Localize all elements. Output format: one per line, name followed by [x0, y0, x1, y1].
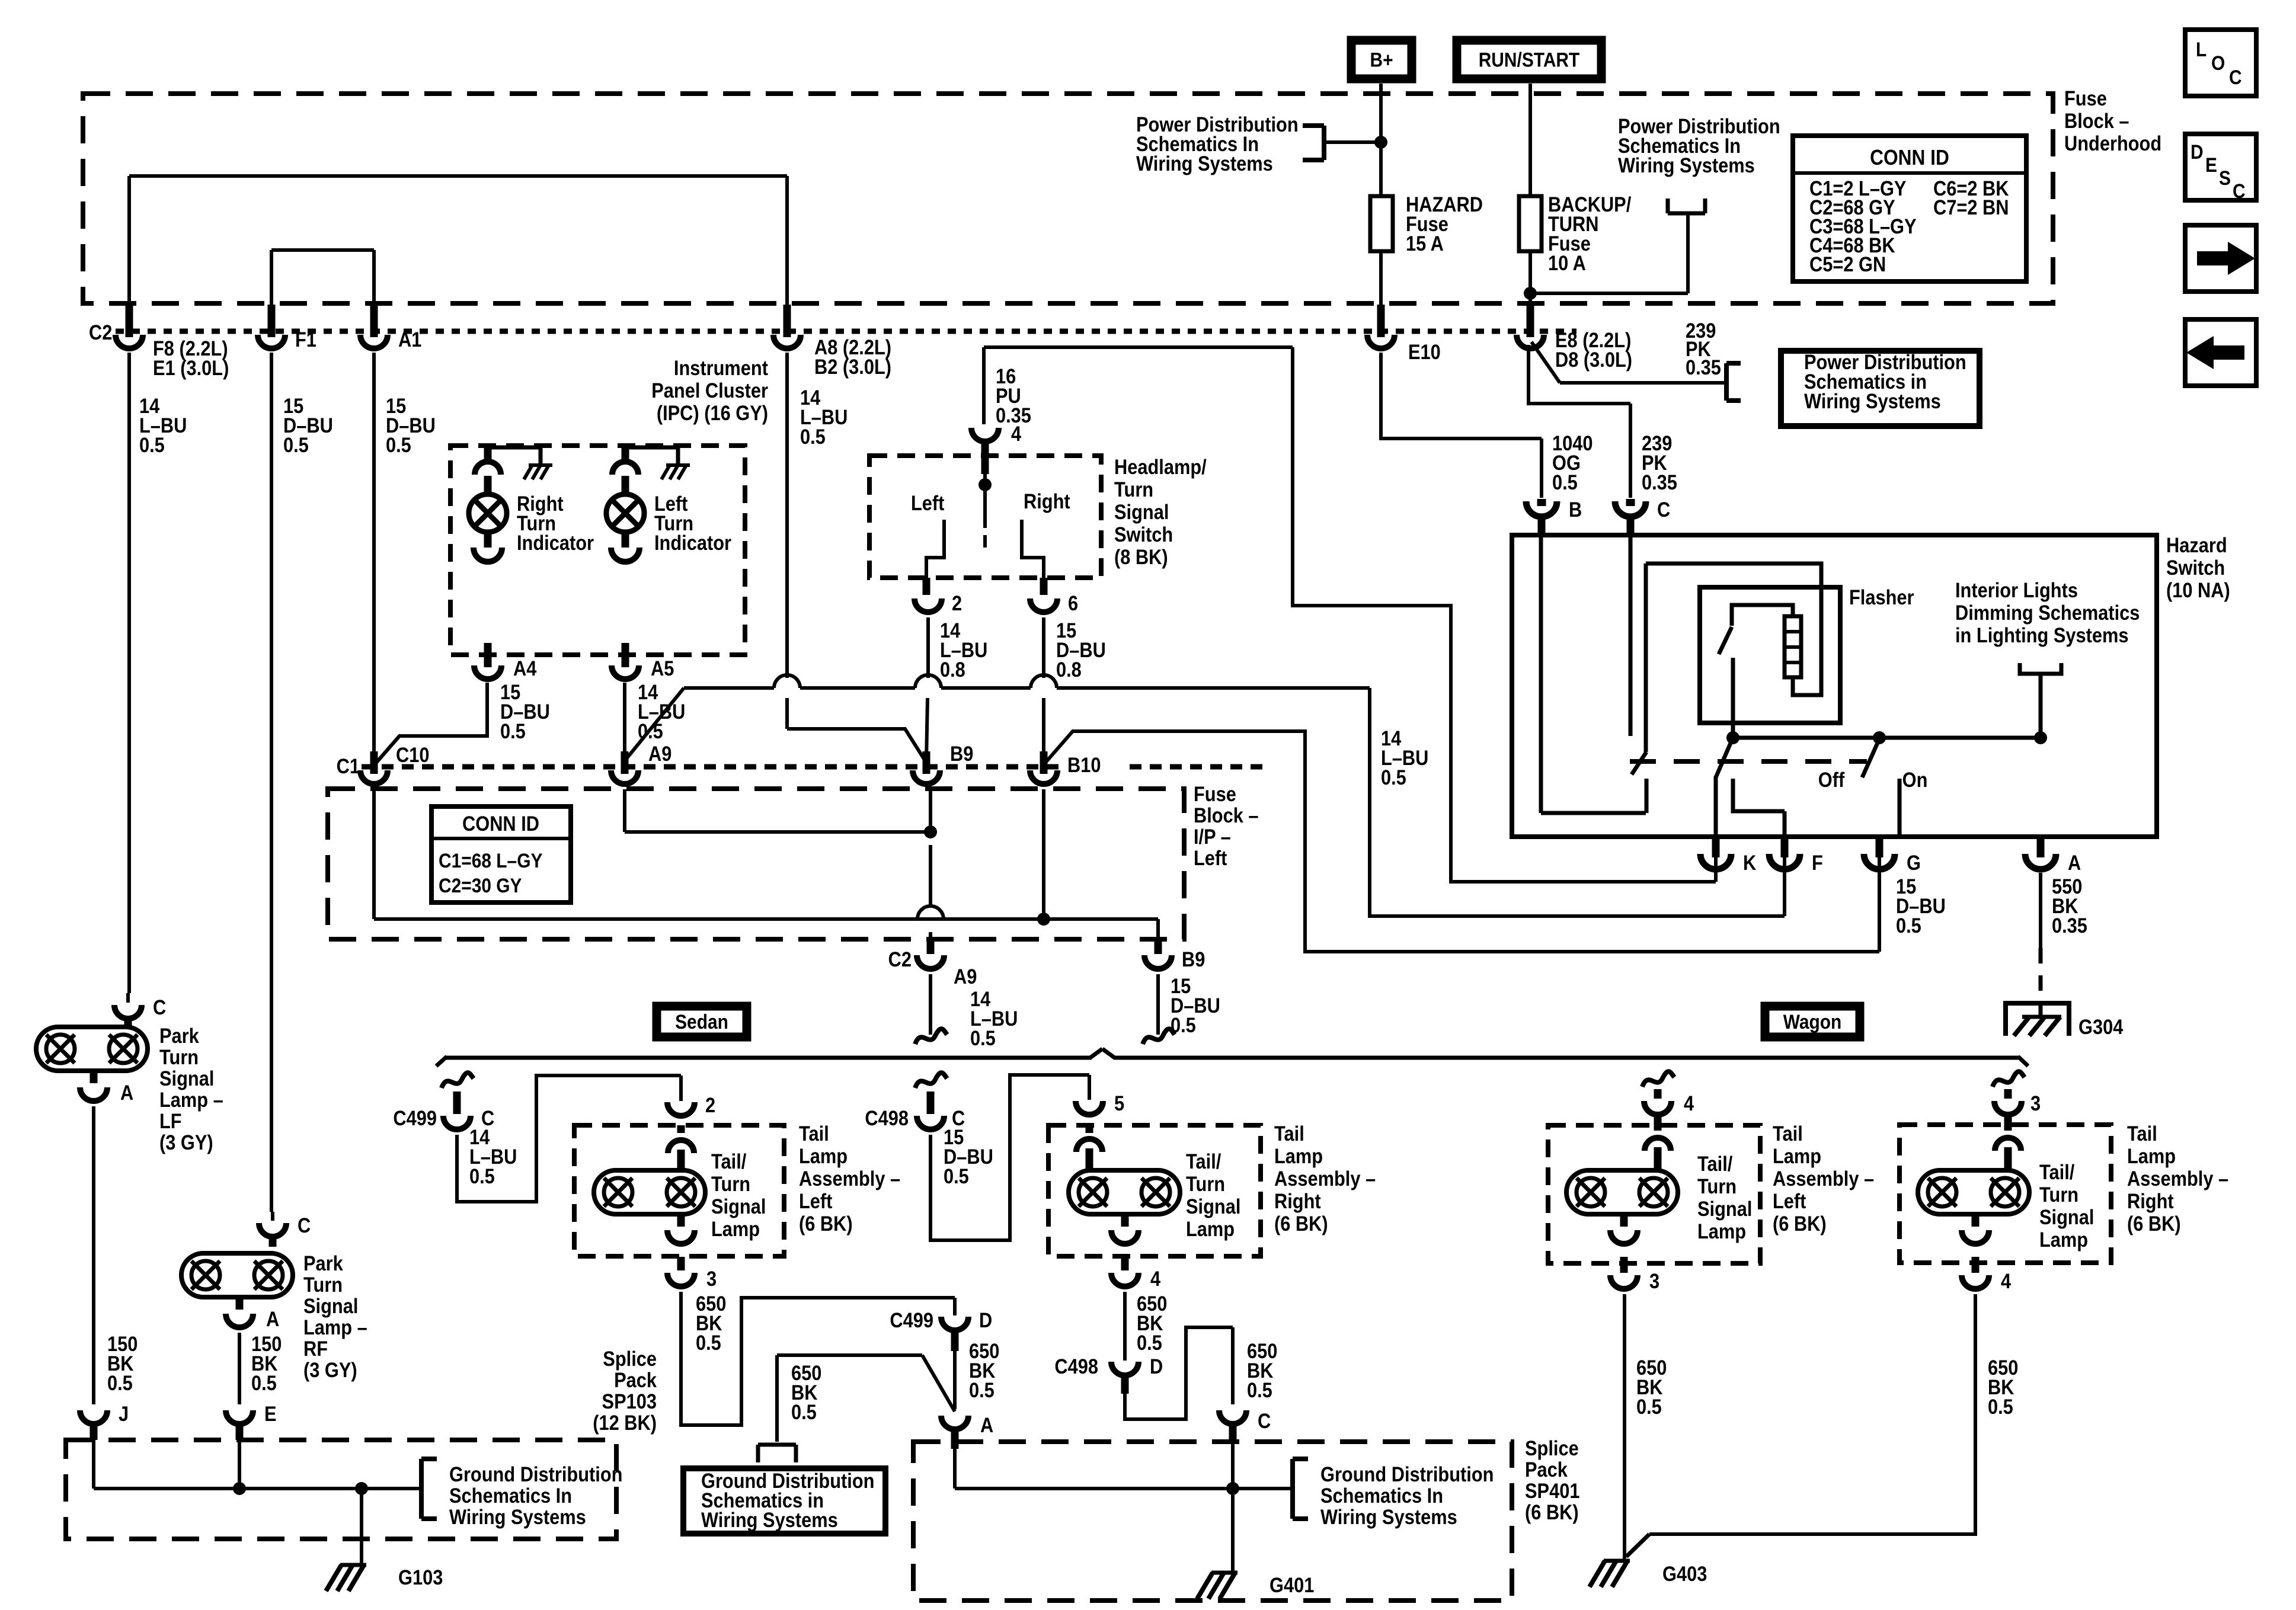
svg-text:RF: RF [303, 1337, 328, 1360]
svg-text:(6 BK): (6 BK) [2127, 1212, 2181, 1235]
svg-text:Wiring Systems: Wiring Systems [1804, 389, 1941, 412]
svg-text:Assembly –: Assembly – [2127, 1167, 2228, 1190]
svg-text:0.5: 0.5 [386, 433, 411, 456]
svg-text:Turn: Turn [1186, 1172, 1225, 1195]
svg-text:Splice: Splice [1525, 1436, 1579, 1459]
svg-text:0.5: 0.5 [251, 1371, 277, 1394]
svg-text:C: C [298, 1214, 311, 1237]
svg-text:C7=2 BN: C7=2 BN [1933, 196, 2009, 219]
svg-text:Right: Right [1024, 489, 1070, 513]
svg-text:0.5: 0.5 [1137, 1331, 1162, 1354]
svg-text:C: C [1258, 1409, 1271, 1432]
svg-text:K: K [1743, 851, 1756, 874]
svg-text:0.5: 0.5 [696, 1331, 721, 1354]
svg-text:0.35: 0.35 [1686, 356, 1721, 379]
svg-text:Turn: Turn [2039, 1183, 2078, 1206]
svg-text:C2=30 GY: C2=30 GY [439, 874, 522, 897]
svg-text:Dimming Schematics: Dimming Schematics [1955, 601, 2140, 624]
svg-text:Assembly –: Assembly – [799, 1167, 900, 1190]
svg-text:Signal: Signal [1114, 500, 1169, 523]
svg-text:D: D [2191, 140, 2204, 163]
svg-text:(8 BK): (8 BK) [1114, 545, 1168, 568]
svg-text:G: G [1907, 851, 1921, 874]
svg-text:Block –: Block – [1194, 804, 1259, 827]
svg-text:4: 4 [1150, 1267, 1161, 1290]
svg-text:S: S [2219, 167, 2231, 189]
svg-text:G403: G403 [1662, 1562, 1707, 1585]
svg-text:Left: Left [911, 491, 944, 514]
svg-text:E10: E10 [1408, 340, 1441, 363]
svg-text:0.5: 0.5 [1896, 914, 1921, 937]
svg-text:Tail/: Tail/ [1697, 1152, 1732, 1175]
svg-text:(3 GY): (3 GY) [159, 1131, 213, 1154]
svg-text:E1 (3.0L): E1 (3.0L) [153, 356, 229, 379]
svg-text:Signal: Signal [159, 1067, 214, 1090]
svg-text:C10: C10 [396, 743, 429, 766]
svg-text:Lamp: Lamp [711, 1217, 760, 1240]
svg-text:Splice: Splice [603, 1347, 657, 1370]
svg-text:(IPC) (16 GY): (IPC) (16 GY) [657, 401, 768, 424]
svg-text:Turn: Turn [1114, 478, 1153, 501]
svg-text:Wiring Systems: Wiring Systems [1618, 153, 1755, 177]
svg-text:B10: B10 [1067, 753, 1101, 776]
svg-text:(6 BK): (6 BK) [1274, 1212, 1328, 1235]
svg-text:Right: Right [1274, 1189, 1321, 1212]
svg-text:I/P –: I/P – [1194, 825, 1231, 848]
svg-text:A5: A5 [651, 657, 674, 680]
svg-text:Pack: Pack [1525, 1458, 1568, 1481]
svg-text:CONN ID: CONN ID [462, 812, 539, 835]
svg-text:in Lighting Systems: in Lighting Systems [1955, 623, 2129, 646]
svg-text:Turn: Turn [1697, 1174, 1737, 1198]
svg-text:C2: C2 [888, 948, 912, 971]
svg-text:Hazard: Hazard [2166, 533, 2227, 556]
svg-text:Wagon: Wagon [1783, 1010, 1842, 1033]
svg-text:Headlamp/: Headlamp/ [1114, 455, 1207, 478]
svg-text:0.5: 0.5 [469, 1164, 495, 1188]
svg-text:D: D [979, 1308, 992, 1331]
svg-text:Tail/: Tail/ [1186, 1150, 1221, 1173]
svg-text:Schematics In: Schematics In [1320, 1484, 1443, 1507]
svg-text:Lamp: Lamp [1274, 1144, 1323, 1167]
svg-text:Lamp: Lamp [1186, 1217, 1235, 1240]
svg-text:A4: A4 [513, 657, 537, 680]
svg-text:C498: C498 [1054, 1355, 1098, 1378]
svg-text:Signal: Signal [303, 1294, 358, 1317]
svg-text:0.5: 0.5 [139, 433, 165, 456]
svg-text:LF: LF [159, 1109, 182, 1132]
svg-text:Assembly –: Assembly – [1274, 1167, 1376, 1190]
svg-text:Tail: Tail [799, 1122, 829, 1145]
svg-text:F: F [1812, 851, 1823, 874]
svg-text:(3 GY): (3 GY) [303, 1358, 357, 1381]
svg-text:Left: Left [1194, 846, 1227, 869]
svg-text:0.5: 0.5 [1247, 1378, 1272, 1401]
svg-text:0.8: 0.8 [1056, 658, 1082, 681]
svg-text:CONN ID: CONN ID [1870, 146, 1949, 169]
svg-text:10 A: 10 A [1548, 251, 1586, 274]
svg-text:G103: G103 [398, 1566, 443, 1589]
svg-text:0.35: 0.35 [996, 404, 1031, 427]
svg-text:(12 BK): (12 BK) [593, 1411, 657, 1434]
svg-text:D8 (3.0L): D8 (3.0L) [1555, 348, 1632, 371]
svg-text:Lamp: Lamp [2039, 1228, 2088, 1251]
svg-text:Tail/: Tail/ [711, 1150, 746, 1173]
svg-text:0.35: 0.35 [2052, 914, 2087, 937]
svg-text:Signal: Signal [1697, 1197, 1752, 1220]
svg-text:B9: B9 [1182, 948, 1205, 971]
svg-text:2: 2 [952, 591, 962, 614]
svg-text:5: 5 [1114, 1092, 1124, 1115]
svg-text:4: 4 [2001, 1269, 2012, 1292]
svg-text:Wiring Systems: Wiring Systems [1136, 152, 1273, 175]
svg-text:C: C [2229, 66, 2242, 88]
svg-text:0.5: 0.5 [970, 1026, 996, 1049]
svg-text:Ground Distribution: Ground Distribution [1320, 1462, 1494, 1486]
svg-text:B+: B+ [1370, 49, 1393, 71]
svg-text:Interior Lights: Interior Lights [1955, 578, 2078, 601]
svg-text:D: D [1150, 1355, 1163, 1378]
svg-text:(10 NA): (10 NA) [2166, 578, 2230, 601]
svg-text:Assembly –: Assembly – [1773, 1167, 1874, 1190]
svg-text:3: 3 [2030, 1092, 2041, 1115]
svg-text:G304: G304 [2078, 1015, 2124, 1038]
svg-text:Schematics In: Schematics In [449, 1484, 572, 1507]
svg-text:C5=2 GN: C5=2 GN [1809, 252, 1886, 276]
svg-text:Lamp: Lamp [2127, 1144, 2176, 1167]
svg-text:2: 2 [705, 1093, 715, 1116]
svg-text:A9: A9 [648, 742, 671, 765]
svg-text:0.5: 0.5 [107, 1371, 133, 1394]
svg-text:Ground Distribution: Ground Distribution [449, 1462, 622, 1486]
svg-text:6: 6 [1068, 591, 1078, 614]
svg-text:0.5: 0.5 [791, 1400, 817, 1423]
svg-text:Turn: Turn [159, 1045, 199, 1068]
svg-text:Indicator: Indicator [517, 531, 594, 554]
svg-text:B9: B9 [950, 742, 973, 765]
svg-text:0.5: 0.5 [283, 433, 309, 456]
svg-text:Flasher: Flasher [1849, 585, 1914, 609]
svg-text:Panel Cluster: Panel Cluster [651, 379, 768, 402]
svg-text:Lamp: Lamp [1697, 1219, 1746, 1243]
svg-text:Signal: Signal [711, 1195, 766, 1218]
svg-text:4: 4 [1684, 1092, 1694, 1115]
svg-text:C1: C1 [337, 754, 360, 777]
svg-text:Lamp: Lamp [799, 1144, 848, 1167]
svg-text:Signal: Signal [2039, 1205, 2094, 1228]
svg-text:Park: Park [303, 1251, 343, 1275]
svg-text:Indicator: Indicator [654, 531, 731, 554]
svg-text:Block –: Block – [2064, 109, 2129, 132]
svg-text:0.5: 0.5 [500, 719, 526, 742]
svg-text:G401: G401 [1269, 1573, 1314, 1596]
svg-text:L: L [2196, 38, 2207, 60]
svg-text:Lamp: Lamp [1773, 1144, 1821, 1167]
svg-text:0.5: 0.5 [944, 1164, 969, 1188]
svg-text:C499: C499 [890, 1308, 933, 1331]
svg-text:(6 BK): (6 BK) [1773, 1212, 1827, 1235]
svg-text:Switch: Switch [1114, 523, 1173, 546]
svg-text:A: A [2068, 851, 2081, 874]
svg-text:A9: A9 [954, 965, 977, 988]
svg-text:Wiring Systems: Wiring Systems [1320, 1505, 1457, 1528]
svg-text:0.5: 0.5 [1552, 470, 1578, 494]
svg-text:0.5: 0.5 [1988, 1395, 2013, 1418]
svg-text:0.8: 0.8 [940, 658, 965, 681]
svg-text:15 A: 15 A [1406, 232, 1444, 255]
svg-text:Fuse: Fuse [1194, 782, 1236, 805]
svg-text:SP103: SP103 [602, 1390, 657, 1413]
svg-text:Tail: Tail [2127, 1122, 2157, 1145]
svg-text:C: C [2233, 180, 2246, 202]
svg-text:0.35: 0.35 [1642, 470, 1677, 494]
svg-text:O: O [2211, 52, 2225, 74]
svg-text:Wiring Systems: Wiring Systems [701, 1508, 838, 1531]
svg-text:3: 3 [1649, 1269, 1659, 1292]
svg-text:Wiring Systems: Wiring Systems [449, 1505, 586, 1528]
svg-text:E: E [2205, 153, 2217, 176]
svg-text:Turn: Turn [303, 1273, 343, 1296]
svg-text:Pack: Pack [614, 1368, 657, 1391]
svg-text:Turn: Turn [711, 1172, 750, 1195]
svg-text:0.5: 0.5 [969, 1378, 994, 1401]
svg-text:Left: Left [1773, 1189, 1806, 1212]
svg-text:Right: Right [2127, 1189, 2174, 1212]
svg-text:Switch: Switch [2166, 556, 2225, 579]
svg-text:Left: Left [799, 1189, 832, 1212]
svg-text:C1=68 L–GY: C1=68 L–GY [439, 849, 542, 872]
svg-text:A: A [266, 1307, 279, 1330]
svg-text:C498: C498 [865, 1106, 909, 1129]
svg-text:B2 (3.0L): B2 (3.0L) [814, 355, 891, 378]
svg-text:A: A [120, 1081, 133, 1104]
svg-text:Tail/: Tail/ [2039, 1160, 2074, 1183]
svg-text:Underhood: Underhood [2064, 132, 2161, 155]
svg-text:A: A [980, 1413, 993, 1436]
svg-text:Sedan: Sedan [675, 1010, 728, 1033]
svg-text:J: J [119, 1402, 129, 1425]
svg-text:C: C [1657, 498, 1670, 521]
svg-text:C: C [153, 996, 166, 1019]
svg-text:3: 3 [706, 1267, 717, 1290]
svg-text:On: On [1902, 768, 1928, 791]
svg-text:Instrument: Instrument [674, 356, 768, 379]
svg-text:E: E [264, 1402, 277, 1425]
svg-text:Lamp –: Lamp – [159, 1088, 223, 1111]
svg-text:0.5: 0.5 [1381, 766, 1406, 789]
svg-text:(6 BK): (6 BK) [799, 1212, 853, 1235]
svg-text:A1: A1 [398, 328, 421, 351]
svg-text:Fuse: Fuse [2064, 87, 2107, 110]
svg-text:SP401: SP401 [1525, 1479, 1579, 1502]
svg-text:RUN/START: RUN/START [1479, 49, 1580, 71]
svg-text:0.5: 0.5 [800, 425, 826, 448]
svg-text:Park: Park [159, 1024, 199, 1047]
svg-text:Lamp –: Lamp – [303, 1315, 367, 1339]
svg-text:Signal: Signal [1186, 1195, 1240, 1218]
svg-text:Tail: Tail [1274, 1122, 1304, 1145]
svg-text:F1: F1 [295, 328, 316, 351]
svg-text:Tail: Tail [1773, 1122, 1803, 1145]
svg-text:C2: C2 [89, 321, 112, 344]
svg-text:C499: C499 [393, 1106, 437, 1129]
svg-text:Off: Off [1818, 768, 1845, 791]
svg-text:B: B [1569, 498, 1582, 521]
svg-text:(6 BK): (6 BK) [1525, 1500, 1579, 1523]
svg-text:0.5: 0.5 [1636, 1395, 1662, 1418]
